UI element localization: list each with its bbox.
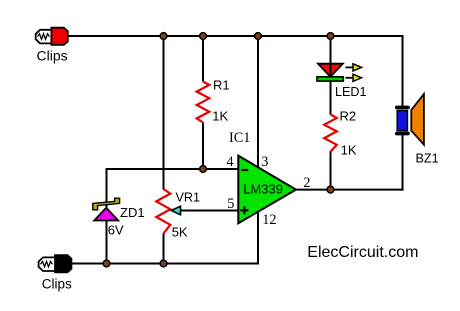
svg-text:4: 4 bbox=[226, 154, 233, 170]
buzzer BZ1 top plate bbox=[395, 106, 410, 110]
svg-text:BZ1: BZ1 bbox=[416, 152, 439, 166]
svg-text:1K: 1K bbox=[341, 142, 357, 157]
resistor R1 bbox=[197, 82, 210, 123]
wire bottom rail from bottom clip to pin12 corner bbox=[72, 263, 259, 265]
svg-text:5K: 5K bbox=[172, 225, 188, 240]
svg-text:Clips: Clips bbox=[37, 48, 68, 64]
wire pin3 supply segment bbox=[257, 36, 259, 168]
wire pin12 ground segment bbox=[257, 212, 259, 264]
potentiometer VR1 bbox=[156, 189, 170, 234]
buzzer BZ1 cone bbox=[411, 94, 424, 145]
wire ZD1 branch bbox=[106, 168, 108, 264]
svg-text:ElecCircuit.com: ElecCircuit.com bbox=[307, 244, 418, 261]
svg-text:IC1: IC1 bbox=[229, 130, 250, 146]
LED1 light arrow upper shaft bbox=[346, 66, 354, 68]
op-amp inverting input minus sign bbox=[241, 169, 248, 171]
svg-text:5: 5 bbox=[227, 196, 234, 212]
LED1 triangle bbox=[318, 64, 343, 77]
LED1 cathode bar bbox=[317, 77, 343, 81]
op-amp non-inverting input plus sign bbox=[240, 206, 248, 214]
bottom battery clip black boot bbox=[55, 255, 71, 272]
resistor R2 bbox=[324, 115, 337, 152]
junction node output R2 bbox=[327, 186, 334, 193]
wire R1 branch top segment bbox=[202, 36, 204, 82]
LED1 light arrow lower shaft bbox=[346, 77, 354, 79]
top battery clip red boot bbox=[51, 28, 67, 45]
wire VR1 branch top segment bbox=[163, 36, 165, 190]
LED1 light arrow upper head bbox=[353, 64, 362, 71]
wire pin5 input line from VR1 wiper bbox=[179, 210, 239, 212]
svg-text:3: 3 bbox=[261, 154, 268, 170]
wire buzzer bottom to output line bbox=[402, 135, 404, 191]
LED1 light arrow lower head bbox=[353, 74, 362, 81]
potentiometer VR1 wiper arrow bbox=[171, 206, 180, 214]
junction node bottom VR1 bbox=[160, 260, 167, 267]
junction node top VR1 bbox=[160, 33, 167, 40]
wire LED to R2 segment bbox=[330, 80, 332, 115]
svg-text:2: 2 bbox=[303, 175, 310, 191]
zener diode ZD1 cathode bar bbox=[93, 198, 120, 210]
junction node top pin3 bbox=[255, 33, 262, 40]
wire pin4 input line bbox=[107, 168, 240, 170]
junction node pin4 R1 bbox=[200, 166, 207, 173]
bottom battery clip spring bbox=[41, 261, 53, 266]
svg-text:VR1: VR1 bbox=[176, 191, 201, 205]
wire through LED1 bbox=[330, 63, 332, 77]
svg-text:12: 12 bbox=[262, 212, 276, 228]
buzzer BZ1 body bbox=[397, 111, 407, 131]
junction node bottom ZD1 bbox=[103, 260, 110, 267]
svg-text:ZD1: ZD1 bbox=[120, 205, 145, 220]
wire output pin2 line from op-amp apex to right drop bbox=[294, 189, 404, 191]
wire R1 bottom to pin4 node bbox=[202, 123, 204, 170]
op-amp U1 LM339 triangle bbox=[238, 156, 296, 224]
svg-text:LED1: LED1 bbox=[335, 85, 367, 99]
svg-text:1K: 1K bbox=[212, 109, 228, 124]
svg-text:R2: R2 bbox=[340, 109, 357, 124]
bottom battery clip insulator bbox=[39, 257, 56, 271]
svg-text:R1: R1 bbox=[213, 78, 230, 93]
wire R2 bottom to output line bbox=[330, 151, 332, 189]
wire right drop to buzzer top bbox=[402, 35, 404, 106]
wire LED branch upper segment bbox=[330, 36, 332, 76]
wire top rail from top clip to right corner bbox=[68, 35, 403, 37]
zener diode ZD1 anode triangle bbox=[94, 208, 118, 221]
buzzer BZ1 bottom plate bbox=[395, 132, 410, 136]
wire VR1 bottom segment bbox=[163, 234, 165, 264]
top battery clip insulator bbox=[36, 30, 53, 44]
junction node top LED bbox=[327, 33, 334, 40]
svg-text:LM339: LM339 bbox=[243, 182, 283, 197]
svg-text:Clips: Clips bbox=[42, 277, 72, 292]
svg-text:6V: 6V bbox=[108, 222, 124, 237]
top battery clip spring bbox=[38, 34, 50, 39]
junction node top R1 bbox=[200, 33, 207, 40]
